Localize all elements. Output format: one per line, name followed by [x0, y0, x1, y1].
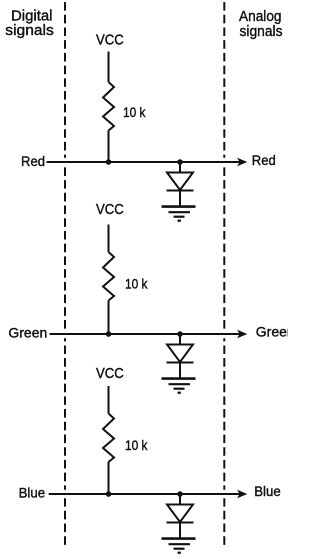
svg-text:Green: Green	[256, 324, 288, 340]
svg-text:Blue: Blue	[254, 483, 281, 499]
svg-text:10 k: 10 k	[125, 276, 148, 292]
svg-text:Red: Red	[21, 153, 45, 169]
svg-text:VCC: VCC	[96, 366, 124, 382]
svg-text:Red: Red	[252, 152, 276, 168]
svg-text:10 k: 10 k	[123, 104, 146, 120]
svg-text:Analog: Analog	[239, 9, 282, 25]
svg-text:Digital: Digital	[11, 8, 53, 24]
svg-text:VCC: VCC	[96, 33, 124, 49]
svg-text:Blue: Blue	[19, 485, 46, 501]
svg-text:10 k: 10 k	[125, 437, 148, 453]
svg-text:signals: signals	[240, 24, 283, 40]
svg-text:Green: Green	[8, 325, 47, 341]
svg-text:signals: signals	[5, 23, 54, 39]
svg-text:VCC: VCC	[96, 202, 124, 218]
